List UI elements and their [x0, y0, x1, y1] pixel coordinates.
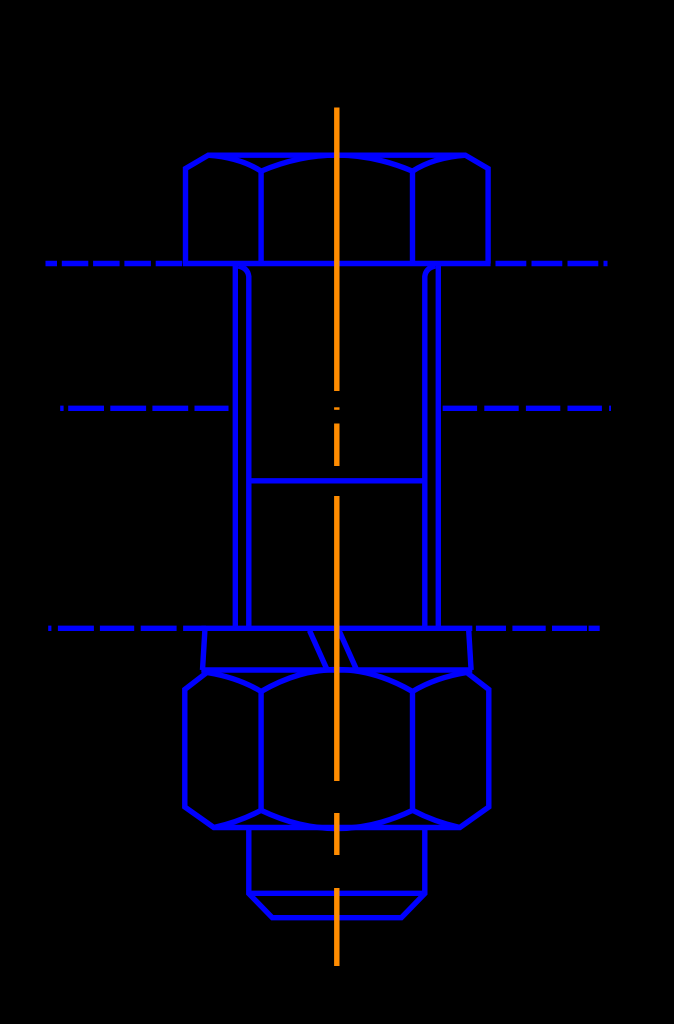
- plates interface dashed line left: [60, 406, 228, 411]
- bolt protruding end outline: [249, 828, 425, 918]
- centerline long segment 1: [334, 108, 339, 392]
- bolt head right face chamfer arc: [413, 155, 466, 171]
- hex nut top left face chamfer arc: [207, 673, 261, 692]
- bolt head bottom seat line: [183, 261, 491, 266]
- bolt head middle face chamfer arc: [261, 155, 412, 171]
- centerline short segment 2: [334, 424, 339, 467]
- hex nut top right face chamfer arc: [413, 673, 467, 692]
- hex nut outline: [185, 673, 489, 828]
- hex nut bottom left face chamfer arc: [214, 810, 261, 827]
- centerline long segment 3: [334, 496, 339, 781]
- bolt head left face chamfer arc: [208, 155, 261, 171]
- hex nut right divider edge: [410, 692, 415, 811]
- thread root line left with runout curve: [238, 266, 249, 628]
- lower plate surface dashed line left: [48, 626, 206, 631]
- shank major diameter line right: [436, 265, 441, 628]
- spring washer split cut line right: [339, 631, 357, 670]
- hex nut left divider edge: [258, 692, 263, 811]
- upper plate surface dashed line left: [46, 261, 185, 266]
- spring washer left edge: [203, 628, 206, 670]
- bolt head left divider edge: [258, 171, 263, 263]
- bolt head outline: [186, 155, 489, 263]
- hex nut bottom middle face chamfer arc: [261, 810, 412, 828]
- centerline short segment 4: [334, 813, 339, 855]
- spring washer split cut line left: [310, 631, 328, 670]
- bolt head right divider edge: [410, 171, 415, 263]
- bolt end chamfer line: [249, 891, 425, 896]
- spring washer right edge: [469, 628, 472, 670]
- hex nut bottom right face chamfer arc: [413, 810, 460, 827]
- plates interface dashed line right: [443, 406, 611, 411]
- lower plate surface dashed line right: [476, 626, 600, 631]
- thread length boundary line: [249, 478, 425, 483]
- hex nut top middle face chamfer arc: [261, 670, 412, 692]
- spring washer bottom edge: [201, 667, 472, 672]
- upper plate surface dashed line right: [496, 261, 608, 266]
- centerline dot: [334, 407, 339, 410]
- thread root line right with runout curve: [425, 266, 436, 628]
- spring washer top edge: [201, 626, 472, 631]
- centerline long segment 5: [334, 888, 339, 966]
- shank major diameter line left: [233, 265, 238, 628]
